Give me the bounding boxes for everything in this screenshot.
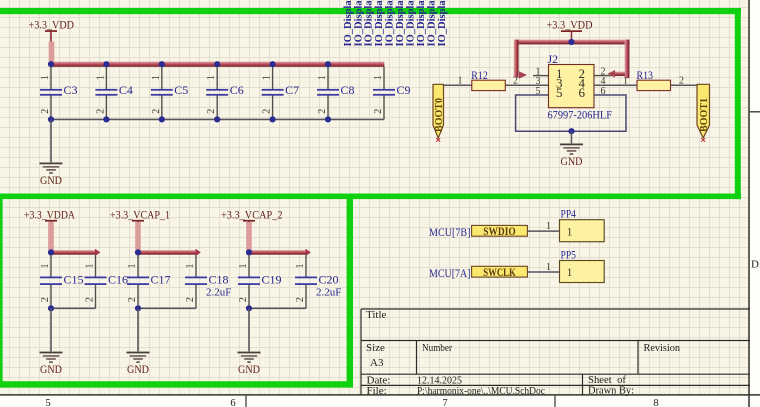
title block value A3: [370, 357, 384, 369]
junction bottom x=161.8: [159, 116, 165, 122]
wire BOOT0 to R12: [444, 76, 472, 87]
junction rail x=161.8: [159, 61, 165, 67]
frame zone number 7: [442, 398, 447, 407]
svg-text:1: 1: [238, 264, 249, 269]
svg-text:2: 2: [85, 297, 96, 302]
svg-text:C9: C9: [397, 83, 411, 97]
svg-text:2.2uF: 2.2uF: [316, 287, 341, 299]
ground (+3.3_VDDA): [40, 352, 63, 376]
svg-text:6: 6: [230, 398, 235, 407]
junction rail x=106.4: [103, 61, 109, 67]
capacitor C5: [151, 67, 189, 120]
power +3.3_VCAP_2: [221, 209, 283, 221]
svg-text:C15: C15: [64, 273, 84, 287]
sheet bottom margin: [0, 396, 760, 407]
svg-text:2: 2: [317, 109, 328, 114]
bus U right arm: [608, 40, 630, 79]
svg-text:+3.3_VCAP_1: +3.3_VCAP_1: [110, 209, 170, 221]
svg-text:IO_DisplayB1: IO_DisplayB1: [426, 0, 437, 47]
green border right edge top box: [735, 8, 741, 199]
port BOOT1: [697, 84, 710, 142]
power +3.3_VCAP_1: [110, 209, 170, 221]
net label IO_Display 9: [426, 0, 437, 47]
svg-text:MCU[7A]: MCU[7A]: [429, 266, 471, 280]
frame bottom border line: [0, 394, 760, 396]
resistor R13: [637, 68, 671, 90]
net label IO_Display 1: [343, 0, 354, 47]
svg-text:IO_DisplayB1: IO_DisplayB1: [395, 0, 406, 47]
svg-text:+3.3_VDDA: +3.3_VDDA: [24, 209, 76, 221]
svg-text:+3.3_VDD: +3.3_VDD: [29, 19, 75, 31]
svg-text:1: 1: [127, 264, 138, 269]
testpoint PP4: [560, 207, 605, 242]
capacitor C20: [295, 255, 341, 309]
net label IO_Display 10: [437, 0, 448, 47]
sheet entry MCU[7A] / port SWCLK: [429, 266, 527, 280]
power +3.3_VDD (J2): [547, 20, 593, 33]
power +3.3_VDD (cap bank): [29, 19, 75, 32]
svg-text:Number: Number: [422, 342, 452, 354]
capacitor C18: [185, 255, 231, 309]
frame right border line: [748, 0, 750, 407]
bus +3.3_VDD rail: [51, 62, 384, 67]
svg-text:1: 1: [262, 75, 273, 80]
capacitor C15: [40, 255, 84, 309]
svg-text:1: 1: [185, 264, 196, 269]
wire C15 to ground: [50, 308, 52, 351]
svg-text:2: 2: [127, 297, 138, 302]
title block grid: [361, 309, 750, 395]
svg-text:C19: C19: [262, 273, 282, 287]
junction +3.3_VCAP_1: [135, 249, 141, 255]
svg-text:2: 2: [151, 109, 162, 114]
svg-text:IO_DisplayB1: IO_DisplayB1: [353, 0, 364, 47]
green border middle edge: [0, 194, 741, 200]
wire +3.3_VCAP_1 riser: [135, 221, 141, 251]
bus +3.3_VDDA horizontal: [51, 249, 100, 256]
svg-text:Title: Title: [366, 309, 387, 321]
junction rail x=272.6: [270, 61, 276, 67]
svg-text:1: 1: [40, 264, 51, 269]
wire C19 to ground: [248, 308, 250, 351]
capacitor C7: [262, 67, 300, 120]
wire R13 to BOOT1: [671, 76, 698, 87]
svg-text:R13: R13: [637, 68, 654, 82]
svg-text:5: 5: [45, 398, 50, 407]
wire SWCLK to PP5: [527, 262, 559, 273]
green border bottom-left box right edge: [347, 194, 353, 388]
svg-text:IO_DisplayB1: IO_DisplayB1: [437, 0, 448, 47]
green border bottom-left box left edge: [0, 194, 3, 388]
title block label Date: [367, 374, 391, 386]
wire J2 pin4 to R13: [594, 76, 637, 87]
value 67997-206HLF: [548, 108, 613, 122]
frame zone number 6: [230, 398, 235, 407]
svg-text:C8: C8: [341, 83, 355, 97]
wire +3.3_VCAP_2 riser: [246, 221, 252, 251]
svg-text:IO_DisplayB1: IO_DisplayB1: [416, 0, 427, 47]
ground (cap bank): [40, 163, 63, 187]
frame zone tick right: [750, 111, 760, 113]
junction rail x=328: [325, 61, 331, 67]
capacitor C16: [85, 255, 129, 309]
sheet right margin: [750, 0, 760, 407]
testpoint PP5: [560, 248, 605, 283]
svg-text:7: 7: [442, 398, 447, 407]
svg-text:1: 1: [567, 265, 573, 279]
bus +3.3_VCAP_2 horizontal: [249, 249, 311, 256]
svg-text:IO_DisplayB1: IO_DisplayB1: [406, 0, 417, 47]
svg-text:2.2uF: 2.2uF: [206, 287, 231, 299]
svg-text:2: 2: [206, 109, 217, 114]
svg-text:Drawn By:: Drawn By:: [588, 385, 634, 397]
svg-text:Size: Size: [366, 342, 385, 354]
power +3.3_VDDA: [24, 209, 76, 221]
svg-text:J2: J2: [548, 52, 559, 66]
frame zone divider 7/8: [554, 396, 556, 407]
junction bottom x=51: [48, 116, 54, 122]
wire C15/C16 bottom: [51, 307, 96, 309]
wire C3 to ground: [50, 119, 52, 162]
svg-text:IO_DisplayB1: IO_DisplayB1: [374, 0, 385, 47]
wire VDD riser to rail: [49, 32, 55, 64]
net label IO_Display 7: [406, 0, 417, 47]
junction rail x=217.2: [214, 61, 220, 67]
junction rail x=51: [48, 61, 54, 67]
wire R12 to J2 pin3: [505, 76, 548, 87]
sheet entry MCU[7B] / port SWDIO: [429, 225, 527, 239]
title block label Title: [366, 309, 387, 321]
svg-text:C16: C16: [108, 273, 128, 287]
junction bottom x=328: [325, 116, 331, 122]
svg-text:SWCLK: SWCLK: [483, 267, 516, 279]
svg-text:1: 1: [206, 75, 217, 80]
svg-text:1: 1: [458, 76, 463, 87]
J2 pin 6: [579, 85, 606, 100]
green border top edge: [0, 8, 741, 14]
svg-text:2: 2: [262, 109, 273, 114]
svg-text:1: 1: [40, 75, 51, 80]
title block value date: [417, 374, 462, 386]
frame zone divider 5/6: [245, 396, 247, 407]
net label IO_Display 3: [364, 0, 375, 47]
capacitor C6: [206, 67, 244, 120]
svg-text:C3: C3: [64, 83, 78, 97]
junction C19 bottom: [246, 305, 252, 311]
svg-text:1: 1: [151, 75, 162, 80]
svg-text:IO_DisplayB1: IO_DisplayB1: [385, 0, 396, 47]
junction C15 bottom: [48, 305, 54, 311]
net label IO_Display 8: [416, 0, 427, 47]
svg-text:1: 1: [546, 262, 551, 273]
svg-text:1: 1: [317, 75, 328, 80]
net label IO_Display 4: [374, 0, 385, 47]
junction +3.3_VDDA: [48, 249, 54, 255]
svg-text:PP4: PP4: [561, 207, 577, 221]
bus U left arm: [514, 40, 527, 79]
svg-text:P:\harmonix-one\..\MCU.SchDoc: P:\harmonix-one\..\MCU.SchDoc: [417, 385, 545, 397]
title block value file: [417, 385, 545, 397]
svg-text:MCU[7B]: MCU[7B]: [429, 225, 471, 239]
frame zone number 5: [45, 398, 50, 407]
svg-text:D: D: [751, 259, 759, 271]
J2 pin 5: [536, 85, 563, 100]
ground (+3.3_VCAP_2): [238, 352, 261, 376]
wire C17 to ground: [137, 308, 139, 351]
title block label Drawn By: [588, 385, 634, 397]
wire C19/C20 bottom: [249, 307, 306, 309]
capacitor C3: [40, 67, 78, 120]
designator J2: [548, 52, 559, 66]
svg-text:C5: C5: [174, 83, 188, 97]
port BOOT0: [433, 84, 445, 142]
svg-text:GND: GND: [127, 362, 149, 376]
title block label Number: [422, 342, 452, 354]
svg-text:C17: C17: [151, 273, 171, 287]
svg-text:GND: GND: [561, 154, 583, 168]
title block label Revision: [644, 342, 681, 354]
svg-text:1: 1: [373, 75, 384, 80]
title block label File: [367, 385, 387, 397]
svg-text:2: 2: [295, 297, 306, 302]
bus +3.3_VCAP_1 horizontal: [138, 249, 201, 256]
svg-text:File:: File:: [367, 385, 387, 397]
svg-text:2: 2: [95, 109, 106, 114]
svg-text:1: 1: [85, 264, 96, 269]
svg-text:1: 1: [95, 75, 106, 80]
svg-text:SWDIO: SWDIO: [483, 226, 516, 238]
net label IO_Display 2: [353, 0, 364, 47]
svg-text:2: 2: [513, 76, 518, 87]
junction C17 bottom: [135, 305, 141, 311]
capacitor C19: [238, 255, 282, 309]
svg-text:GND: GND: [40, 362, 62, 376]
svg-text:IO_DisplayB1: IO_DisplayB1: [343, 0, 354, 47]
resistor R12: [471, 68, 505, 90]
wire cap bank bottom: [51, 118, 384, 120]
connector J2 body: [549, 65, 595, 108]
svg-text:1: 1: [567, 224, 573, 238]
svg-text:R12: R12: [471, 68, 488, 82]
wire ground stem (J2): [571, 131, 573, 143]
J2 pin 2: [579, 66, 613, 81]
svg-text:C6: C6: [230, 83, 244, 97]
svg-text:1: 1: [623, 76, 628, 87]
svg-text:2: 2: [185, 297, 196, 302]
svg-text:C20: C20: [319, 273, 339, 287]
frame zone letter D: [751, 259, 759, 271]
svg-text:8: 8: [653, 398, 658, 407]
svg-text:+3.3_VCAP_2: +3.3_VCAP_2: [221, 209, 283, 221]
net label IO_Display 6: [395, 0, 406, 47]
svg-text:2: 2: [373, 109, 384, 114]
svg-text:2: 2: [40, 109, 51, 114]
junction bottom x=106.4: [103, 116, 109, 122]
svg-text:BOOT1: BOOT1: [698, 98, 710, 132]
junction bottom x=217.2: [214, 116, 220, 122]
wire SWDIO to PP4: [527, 221, 559, 232]
svg-text:+3.3_VDD: +3.3_VDD: [547, 20, 593, 32]
svg-text:Revision: Revision: [644, 342, 681, 354]
bus U top segment: [514, 40, 630, 45]
svg-text:1: 1: [295, 264, 306, 269]
svg-text:BOOT0: BOOT0: [433, 98, 445, 132]
J2 pin 4: [579, 76, 606, 91]
svg-text:6: 6: [579, 85, 586, 100]
svg-text:PP5: PP5: [561, 248, 577, 262]
svg-text:2: 2: [40, 297, 51, 302]
green border bottom-left box bottom edge: [0, 381, 353, 387]
svg-text:2: 2: [238, 297, 249, 302]
junction ground (J2): [568, 128, 574, 134]
svg-text:C18: C18: [209, 273, 229, 287]
svg-text:1: 1: [546, 221, 551, 232]
junction bottom x=272.6: [270, 116, 276, 122]
svg-text:C7: C7: [285, 83, 299, 97]
junction +3.3_VCAP_2: [246, 249, 252, 255]
capacitor C17: [127, 255, 171, 309]
ground (J2): [560, 144, 583, 168]
svg-text:2: 2: [679, 76, 684, 87]
J2 pin 3: [536, 76, 563, 91]
wire +3.3_VDDA riser: [48, 221, 54, 251]
J2 pin 1: [533, 66, 563, 81]
svg-text:GND: GND: [238, 362, 260, 376]
capacitor C4: [95, 67, 133, 120]
ground (+3.3_VCAP_1): [127, 352, 150, 376]
net label IO_Display 5: [385, 0, 396, 47]
svg-text:A3: A3: [370, 357, 384, 369]
wire VDD to bus (J2): [571, 32, 573, 43]
capacitor C8: [317, 67, 355, 120]
title block label Sheet of: [588, 374, 626, 386]
title block label Size: [366, 342, 385, 354]
frame zone number 8: [653, 398, 658, 407]
svg-text:GND: GND: [40, 173, 62, 187]
svg-text:C4: C4: [119, 83, 133, 97]
capacitor C9: [373, 67, 411, 120]
svg-text:5: 5: [556, 85, 563, 100]
wire C17/C18 bottom: [138, 307, 196, 309]
wire J2 pin5/pin6 to ground: [516, 95, 626, 131]
junction VDD bus: [568, 39, 574, 45]
svg-text:IO_DisplayB1: IO_DisplayB1: [364, 0, 375, 47]
svg-text:67997-206HLF: 67997-206HLF: [548, 108, 613, 122]
